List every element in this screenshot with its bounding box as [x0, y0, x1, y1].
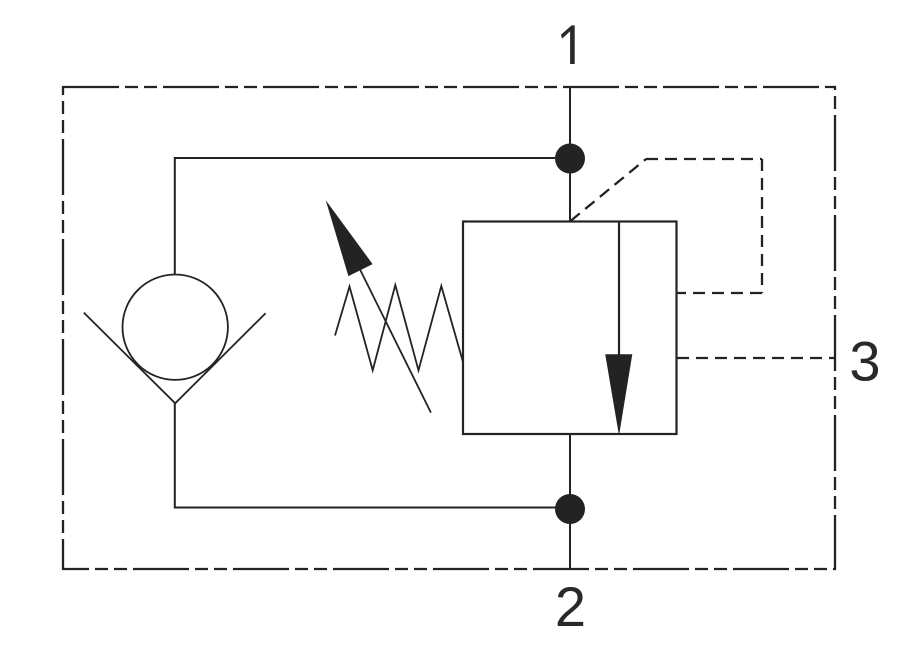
svg-text:2: 2	[555, 575, 586, 638]
enclosure border (long-dash double-short-dash)	[63, 87, 835, 569]
flow arrow inside V1 (head)	[605, 354, 632, 434]
wire: J1 down to valve body V1 top	[569, 158, 571, 222]
wire: J1 left and down to check valve ball	[175, 158, 570, 275]
port 3 pilot/drain line (dashed)	[677, 357, 835, 359]
pilot line (dashed): V1 top to riser, diagonal	[571, 159, 647, 221]
wire: valve body V1 bottom to J2	[569, 434, 571, 509]
junction dot J2 (port 2 node)	[555, 494, 585, 524]
check valve CV1 ball	[123, 275, 228, 380]
wire: port 1 from border to junction J1	[569, 87, 571, 158]
flow arrow inside V1 (shaft)	[618, 222, 620, 357]
junction dot J1 (port 1 node)	[555, 144, 585, 174]
pilot line (dashed): vertical drop	[761, 159, 763, 293]
svg-text:3: 3	[849, 330, 880, 393]
wire: check valve seat down and right to junction J2	[175, 403, 570, 508]
pilot line (dashed): horizontal run	[646, 158, 762, 160]
adjustment arrow (head)	[326, 200, 373, 276]
valve body V1 (sequence valve envelope)	[463, 222, 677, 435]
check valve CV1 seat	[84, 313, 266, 404]
adjustment arrow (shaft)	[356, 262, 431, 413]
pilot line (dashed): return to V1 right side	[677, 292, 762, 294]
port 1 label	[561, 25, 575, 64]
spring (compression, zigzag)	[335, 285, 463, 370]
wire: J2 to border (port 2)	[569, 509, 571, 569]
